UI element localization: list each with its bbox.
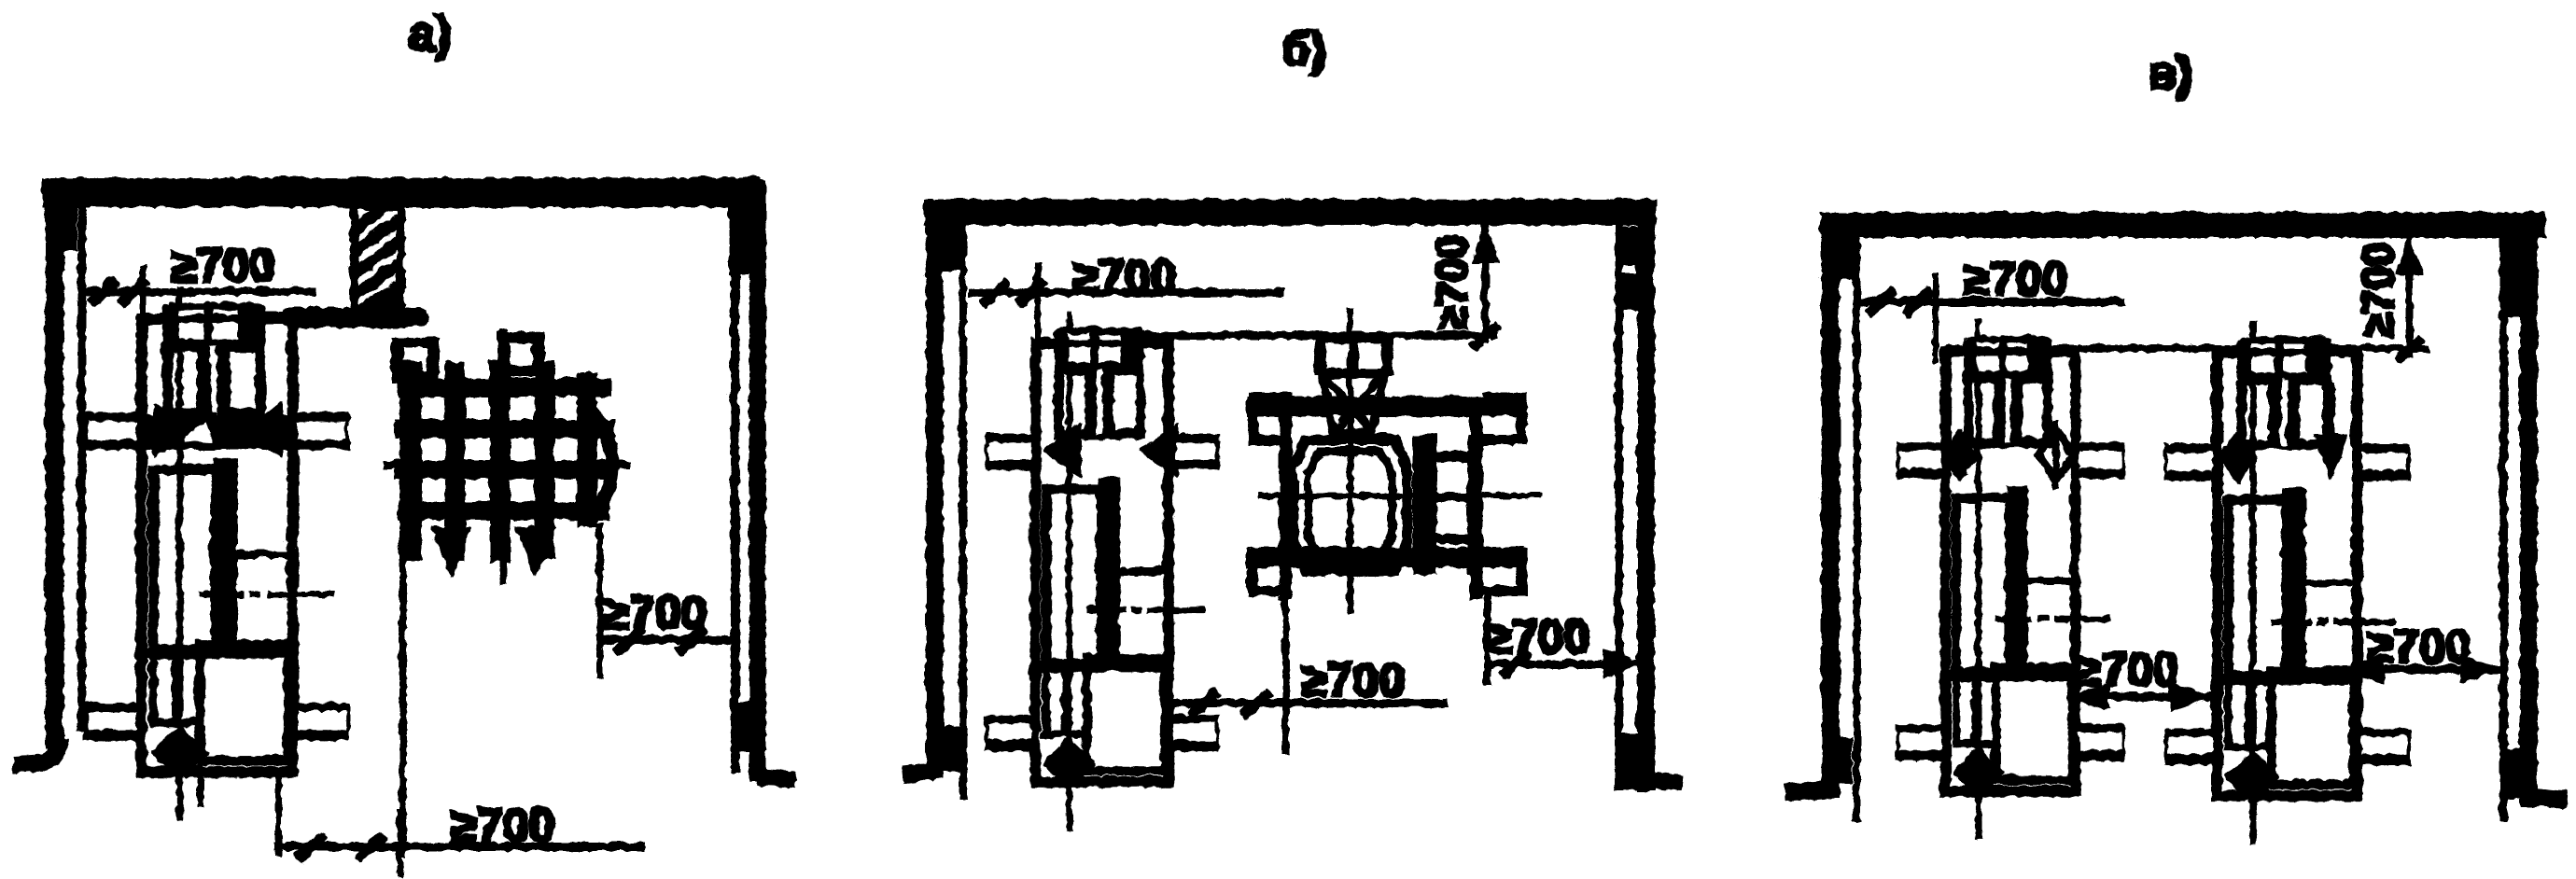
wall left [13,179,80,763]
transformer T1 [985,311,1217,829]
T2 markers [2219,383,2346,481]
partition hatched [290,205,416,316]
wall top [924,199,1654,223]
dim bottom >=700 [273,798,642,875]
svg-text:а): а) [407,6,450,60]
svg-text:≥700: ≥700 [1963,251,2066,303]
cap extension line [159,313,426,319]
wall top [1820,212,2543,235]
svg-text:≥700: ≥700 [1485,609,1589,662]
PANEL-C [1785,46,2565,843]
dim line top-left >=700 [82,238,353,315]
dim right >=700 [1485,609,1643,676]
transformer T2 horizontal [1246,308,1540,611]
dim vertical 700 [1426,224,1497,345]
dim top-left >=700 [1859,251,2122,362]
T1 extension lines [199,737,277,855]
wall left [902,200,961,797]
wall right [1617,200,1680,789]
cap extension line [1132,331,1497,337]
cap extension line [1946,344,2427,350]
wall right [2501,213,2565,819]
T1 diamond markers [1940,420,2072,487]
wall left [1785,213,1855,819]
dim right >=700 [598,585,728,650]
PANEL-B [902,21,1680,828]
svg-text:≥700: ≥700 [2352,241,2401,336]
wall top [42,177,759,205]
svg-text:≥700: ≥700 [1426,233,1475,328]
svg-text:б): б) [1281,21,1325,74]
dim middle >=700 [2066,642,2210,708]
svg-text:≥700: ≥700 [602,585,706,637]
dim right >=700 [2341,619,2500,681]
T1 arrows [142,414,289,448]
transformer T1 [84,286,348,820]
dim bottom-middle >=700 [1172,652,1445,714]
T2 extension lines [1284,588,1486,752]
wall right [728,179,793,780]
svg-text:≥700: ≥700 [170,238,273,290]
T2 extension lines [401,523,598,855]
transformer T1 [1896,319,2122,838]
T1 arrows [1042,423,1176,475]
dim vertical 700 [2352,235,2421,358]
svg-text:≥700: ≥700 [2074,642,2177,694]
transformer T2 [2163,319,2408,842]
svg-text:≥700: ≥700 [1300,652,1404,705]
dim top-left >=700 [968,249,1282,347]
transformer T2 radiator grid [383,328,629,583]
svg-text:в): в) [2147,46,2191,98]
PANEL-A [13,6,793,875]
